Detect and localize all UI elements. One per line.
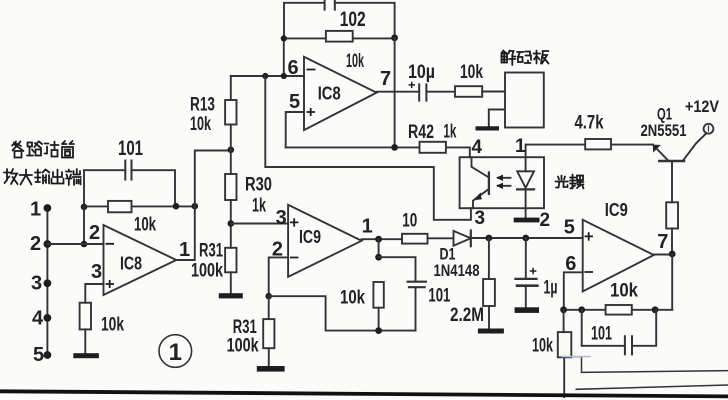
resistor R31 100k (first) — [225, 248, 236, 293]
ground (1u) — [515, 307, 539, 313]
text 放 — [4, 169, 18, 184]
svg-text:10k: 10k — [610, 281, 638, 302]
wire IC8 pin3 stub — [85, 284, 103, 303]
resistor Q1 emitter (to IC9 out) — [666, 202, 678, 228]
resistor 10k (bottom right vertical) — [558, 310, 572, 397]
svg-text:3: 3 — [31, 273, 42, 295]
svg-text:3: 3 — [475, 208, 486, 229]
wire 10k to decoder board — [482, 91, 505, 93]
svg-text:2: 2 — [89, 222, 100, 244]
svg-text:R31: R31 — [199, 241, 223, 262]
node 2.2M top — [486, 235, 493, 242]
svg-text:R42: R42 — [408, 122, 434, 143]
svg-text:101: 101 — [591, 324, 612, 345]
wire IC9 pin2 route — [269, 257, 288, 296]
resistor 2.2M — [483, 238, 495, 329]
opto phototransistor — [472, 157, 489, 208]
node feedback left — [560, 306, 567, 313]
resistor R42 1k — [420, 142, 446, 153]
node A (102/10k left) — [281, 35, 287, 41]
svg-text:1: 1 — [169, 339, 182, 366]
capacitor 101 (left feedback) — [84, 161, 175, 207]
svg-text:R13: R13 — [190, 95, 215, 116]
svg-text:3: 3 — [91, 261, 102, 283]
node pin6 junction x=284 — [281, 73, 287, 79]
resistor 10k (right feedback) — [564, 305, 673, 315]
svg-text:7: 7 — [657, 231, 668, 253]
text 板 — [534, 51, 549, 64]
wire out node down — [378, 239, 380, 257]
lower IC8 minus/plus — [106, 244, 115, 288]
diode D1 1N4148 — [454, 231, 471, 247]
svg-text:+12V: +12V — [685, 97, 720, 116]
opto light arrows — [496, 175, 511, 189]
svg-text:102: 102 — [340, 8, 366, 31]
+12V terminal — [704, 124, 714, 134]
op-amp IC8 upper — [304, 57, 377, 130]
wire output down to feedback — [671, 254, 673, 310]
svg-text:10k: 10k — [532, 336, 553, 357]
node R13 bottom — [228, 147, 235, 154]
node R30 bottom / IC9 pin3 — [228, 220, 235, 227]
wire 10 to D1 — [428, 237, 454, 239]
ground (opto pin2) — [514, 218, 540, 223]
node left feedback x=84 — [81, 204, 88, 211]
text 耦 — [570, 175, 576, 189]
capacitor 10u (polarized, series) — [419, 84, 426, 100]
svg-text:1k: 1k — [252, 196, 266, 217]
svg-text:IC9: IC9 — [605, 200, 628, 220]
resistor 10k (left feedback) — [84, 201, 195, 212]
wire resistor to IC9 output node — [671, 229, 673, 255]
node 1u top — [522, 235, 529, 242]
resistor 10 (series out) — [402, 234, 428, 244]
right IC9 plus/minus — [585, 232, 594, 272]
svg-text:R30: R30 — [245, 175, 272, 196]
text 端 — [66, 169, 81, 185]
svg-text:5: 5 — [564, 217, 575, 239]
wire feedback left vertical to pin6 — [283, 38, 285, 76]
upper IC8 minus/plus — [307, 70, 316, 117]
svg-text:6: 6 — [565, 253, 576, 275]
svg-text:1: 1 — [30, 199, 41, 221]
decoder board box — [505, 73, 544, 128]
svg-text:101: 101 — [428, 286, 450, 307]
wire upper IC8 output pin7 — [377, 91, 420, 93]
svg-text:10k: 10k — [460, 62, 483, 83]
svg-text:IC8: IC8 — [120, 254, 142, 274]
svg-text:IC8: IC8 — [318, 84, 341, 104]
wire IC9 right pin6 route — [564, 272, 583, 310]
ground (2.2M) — [478, 329, 504, 334]
wire right vertical x=394.6 down to R42 net — [394, 38, 396, 148]
svg-text:100k: 100k — [191, 261, 223, 282]
10u polarity plus — [409, 82, 416, 88]
wire pin6 of upper IC8 — [231, 75, 304, 77]
op-amp polarity marks — [106, 70, 594, 289]
text 大 — [20, 170, 33, 185]
op-amp IC8 lower — [104, 225, 177, 295]
svg-text:7: 7 — [380, 68, 391, 90]
wire node to 101 mid cap — [379, 257, 416, 281]
scan artifact blue line — [562, 356, 590, 358]
left IC9 plus/minus — [290, 218, 299, 257]
text 输 — [35, 170, 50, 184]
ground (R31 second) — [257, 366, 285, 372]
wire R30 node to IC9 pin3 — [231, 223, 288, 225]
bottom border line — [0, 391, 728, 396]
1u polarity plus — [530, 268, 537, 275]
svg-text:10µ: 10µ — [408, 62, 435, 83]
wire terminal2 to IC8 pin2 — [47, 243, 103, 245]
ground (R31 first) — [219, 293, 243, 298]
resistor R13 10k — [225, 76, 236, 174]
wire D1 to IC9 right pin5 — [471, 237, 583, 239]
node feedback right — [652, 306, 659, 313]
svg-text:10k: 10k — [190, 114, 211, 135]
svg-text:1µ: 1µ — [544, 278, 558, 299]
Chinese annotation strokes — [4, 51, 584, 189]
svg-text:2.2M: 2.2M — [450, 305, 484, 326]
text 码 — [517, 52, 524, 57]
op-amp IC9 left — [288, 205, 362, 277]
svg-text:6: 6 — [288, 57, 299, 79]
node bottom loop — [375, 327, 382, 334]
text 出 — [52, 170, 64, 184]
resistor 10k (IC8 pin3 bias) — [80, 303, 91, 330]
wire decoder ground L — [489, 110, 505, 127]
transistor Q1 2N5551 — [653, 134, 706, 202]
svg-text:2N5551: 2N5551 — [641, 121, 687, 140]
resistor R30 1k — [225, 174, 236, 248]
node R42 net / x=394.6 — [391, 144, 398, 151]
optocoupler box — [460, 157, 544, 208]
resistor R31 100k (second) — [263, 296, 274, 366]
node pin6 junction x=265 — [262, 73, 268, 79]
capacitor 101 (mid) — [408, 282, 426, 331]
svg-text:1: 1 — [515, 136, 526, 157]
node left feedback x=195 — [192, 203, 199, 210]
resistor 10k (to decoder) — [455, 86, 482, 97]
ground (10k bias) — [73, 353, 99, 358]
node IC9 pin2 / R31 second — [265, 293, 272, 300]
wire bus line 2 — [576, 385, 728, 389]
svg-text:1N4148: 1N4148 — [434, 261, 480, 280]
wire IC8 lower output pin1 up to feedback — [176, 151, 231, 261]
text 话 — [45, 142, 59, 154]
svg-text:4.7k: 4.7k — [575, 113, 604, 134]
wire from pin6 node down-left route to opto pin3 — [265, 76, 471, 220]
svg-text:2: 2 — [272, 239, 283, 261]
svg-text:10k: 10k — [101, 315, 124, 336]
text 路 — [28, 143, 33, 147]
node IC9 right output — [669, 251, 676, 258]
wire 10u to 10k — [426, 91, 455, 93]
node feedback x=582 — [578, 306, 585, 313]
svg-text:5: 5 — [289, 91, 300, 113]
text 筒 — [62, 141, 74, 144]
resistor 4.7k — [585, 139, 611, 149]
text 光 — [556, 176, 569, 188]
capacitor 101 (right feedback) — [582, 310, 657, 355]
svg-text:1k: 1k — [443, 122, 456, 143]
wire pin2 node to bottom loop — [269, 296, 416, 330]
node left feedback x=176 — [173, 203, 180, 210]
figure circle 1 — [159, 335, 192, 368]
opto LED — [517, 157, 534, 217]
svg-text:5: 5 — [33, 344, 44, 366]
node mid 257 — [375, 254, 382, 261]
wire opto pin1 up and to 4.7k — [526, 145, 653, 158]
capacitor 1u (polarized) — [515, 238, 537, 307]
svg-text:10: 10 — [402, 211, 417, 232]
wire bus line 1 — [564, 357, 728, 373]
node pin2/x=84 — [81, 241, 88, 248]
svg-text:4: 4 — [32, 308, 44, 330]
input terminal column — [44, 204, 52, 359]
node IC9 out — [375, 236, 382, 243]
svg-text:10k: 10k — [340, 288, 365, 309]
wire 10k to ground — [84, 329, 86, 353]
wire pin5 stub of upper IC8 — [286, 112, 304, 147]
svg-text:2: 2 — [540, 210, 551, 231]
wire IC9 right output — [654, 254, 672, 256]
resistor 10k (mid vertical) — [373, 282, 383, 331]
wire R42 net horizontal — [286, 147, 470, 157]
capacitor C 102 (top feedback) — [284, 0, 395, 38]
resistor 10k (upper IC8 feedback) — [284, 31, 395, 42]
node B (102/10k right) — [391, 34, 398, 41]
svg-text:10k: 10k — [134, 215, 156, 236]
op-amp IC9 right — [583, 220, 654, 292]
svg-text:1: 1 — [362, 216, 373, 238]
text 解 — [502, 51, 507, 54]
svg-text:10k: 10k — [346, 51, 364, 72]
ground (decoder board) — [476, 126, 500, 130]
svg-text:IC9: IC9 — [299, 227, 321, 247]
svg-text:100k: 100k — [227, 336, 259, 357]
wire IC9 left output — [362, 238, 402, 240]
svg-text:1: 1 — [179, 239, 190, 261]
svg-text:2: 2 — [30, 233, 41, 255]
wire x=84 down to pin2 wire — [83, 206, 85, 244]
text 各 — [12, 142, 24, 152]
svg-text:101: 101 — [118, 137, 143, 160]
svg-text:4: 4 — [472, 137, 483, 158]
svg-text:3: 3 — [276, 207, 287, 229]
